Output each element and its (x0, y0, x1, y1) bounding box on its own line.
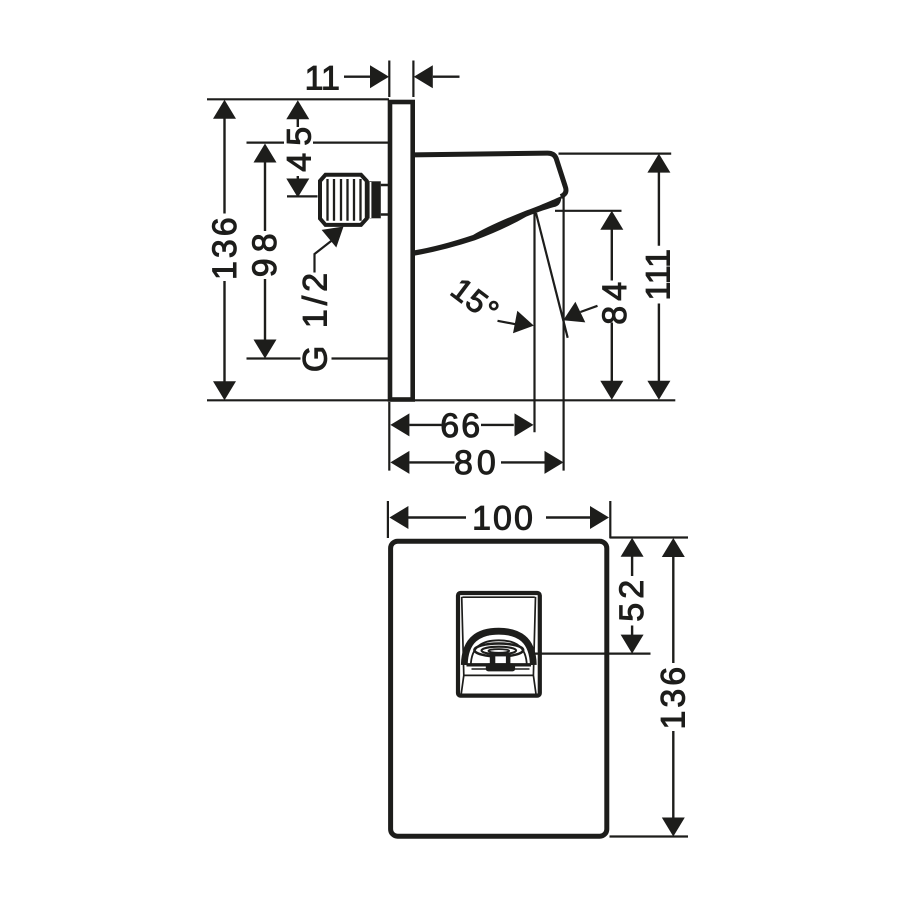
outlet step lines (472, 668, 530, 670)
extension line 84 top y=210.8 (555, 210, 622, 212)
extension line bottom (plate bottom) (207, 399, 675, 401)
dimension 66 arrow right (515, 413, 534, 436)
spout housing square (front) (458, 593, 540, 696)
aerator ellipse inner (488, 649, 509, 653)
housing inner right line (533, 597, 536, 696)
dimension 100 arrow right (590, 506, 609, 529)
svg-text:136: 136 (654, 664, 692, 730)
dimension 100 arrow left (389, 506, 408, 529)
dimension 111 arrow up (647, 154, 670, 173)
dimension 11 arrow right (370, 65, 389, 88)
dimension 80 arrow right (545, 451, 564, 474)
svg-text:15°: 15° (444, 270, 506, 329)
housing inner left line (461, 597, 464, 696)
dimension 111 arrow down (647, 381, 670, 400)
dimension 11 extension lines (389, 61, 413, 98)
svg-text:111: 111 (639, 249, 677, 301)
dimension 80 line (409, 461, 544, 463)
dimension 52 arrow up (621, 538, 644, 557)
spout body top+right outline (side view) (413, 153, 566, 197)
dimension 52 arrow down (621, 635, 644, 654)
extension line 111 top y=153.6 (559, 153, 672, 155)
outlet arch outer (464, 631, 533, 665)
dimension 45 line (297, 118, 299, 180)
outlet stem window (495, 656, 506, 664)
dimension 66 arrow left (390, 413, 409, 436)
dimension 136 front arrow up (662, 538, 685, 557)
dimension 98 arrow up (254, 144, 277, 163)
connector stubs to plate (381, 185, 389, 215)
dimension 98 line (264, 161, 266, 341)
G 1/2 leader line (315, 235, 340, 273)
extension line bottom front y=836.5 (610, 835, 689, 837)
dimension 45 arrow down (286, 179, 309, 198)
dimension 45 arrow up (286, 100, 309, 119)
extension line spout-top reference y=142.6 (247, 142, 390, 144)
dimension 136 (side view) line (223, 117, 225, 382)
dimension 111 line (658, 173, 660, 382)
outlet tab (486, 663, 515, 671)
vertical reference line A (spout outlet) (533, 213, 535, 432)
connector neck (dark) (367, 181, 381, 218)
aerator ellipse middle (482, 647, 517, 655)
svg-text:52: 52 (613, 576, 651, 622)
dimension 84 arrow up (600, 211, 623, 230)
dimension 98 arrow down (254, 340, 277, 359)
dimension 136 arrow up (213, 100, 236, 119)
svg-text:100: 100 (472, 499, 535, 537)
outlet leader / 52 bottom extension y=653.6 (533, 652, 651, 654)
aerator ellipse outer (474, 644, 523, 657)
dimension 52 line (631, 557, 633, 636)
threaded connector G1/2 body (320, 175, 367, 225)
15 degree arrowhead left (563, 302, 585, 323)
outlet arch inner (471, 640, 527, 665)
svg-text:45: 45 (281, 120, 319, 172)
dimension 136 front arrow down (662, 818, 685, 837)
connector thread lines (328, 179, 361, 221)
dimension 84 arrow down (600, 381, 623, 400)
dimension 136 arrow down (213, 381, 236, 400)
wall plate (side view) (390, 102, 413, 400)
15 degree arrow tail (580, 306, 597, 312)
extension line left below plate (388, 402, 390, 471)
extension line 52/136 top y=537.5 (610, 536, 689, 538)
front plate (391, 541, 607, 836)
extension tick 45 bottom (connector centerline) (287, 195, 318, 197)
svg-text:11: 11 (305, 59, 340, 97)
svg-text:G 1/2: G 1/2 (297, 269, 335, 372)
extension line top (plate top) (207, 98, 389, 100)
housing inner top line (463, 596, 535, 598)
svg-text:80: 80 (454, 444, 500, 482)
dimension 84 line (611, 230, 613, 382)
svg-text:98: 98 (246, 227, 284, 277)
dimension 11 left line (344, 75, 371, 77)
G 1/2 leader arrowhead (322, 227, 344, 248)
spout underside + mouth lip (filled) (414, 196, 562, 256)
15 degree leader (498, 321, 519, 325)
dimension 11 right tail (433, 75, 460, 77)
dimension 80 arrow left (390, 451, 409, 474)
svg-text:66: 66 (440, 407, 482, 445)
dimension 100 extension lines (388, 501, 610, 538)
extension line G1/2 level y=358.5 (247, 357, 390, 359)
vertical reference line B (spout tip) (562, 196, 564, 471)
dimension 136 front line (672, 557, 674, 818)
dimension 66 line (409, 424, 514, 426)
dimension 11 arrow left (414, 65, 433, 88)
dimension 100 line (408, 516, 592, 518)
housing inner bottom line (464, 674, 534, 676)
15 degree slant line (536, 213, 568, 338)
outlet stem (dark block) (490, 653, 511, 665)
svg-text:84: 84 (596, 277, 634, 325)
15 degree arrowhead right (513, 311, 534, 334)
outlet arch base line (467, 663, 532, 666)
svg-text:136: 136 (206, 214, 244, 280)
